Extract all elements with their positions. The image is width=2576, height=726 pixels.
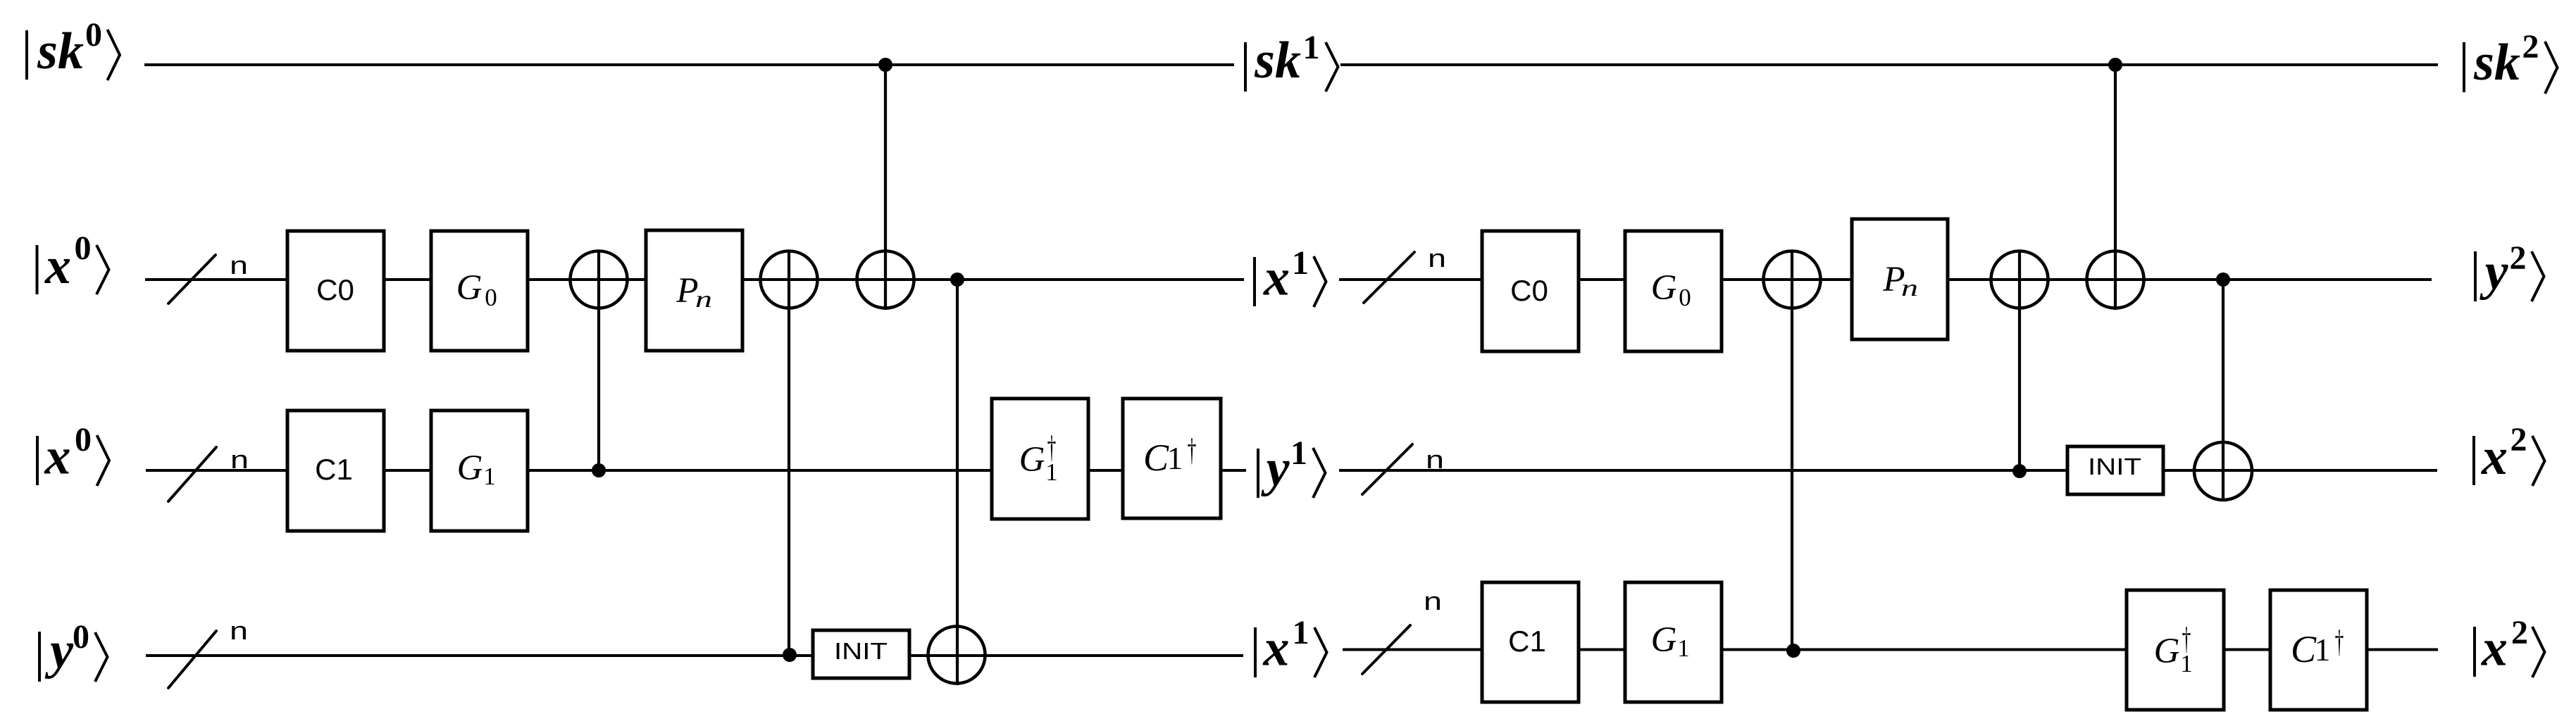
node |y2> output q1 [2474, 239, 2544, 301]
svg-text:n: n [1428, 244, 1446, 273]
node |x1> q1 [1253, 244, 1326, 307]
CNOT-8 target oplus on q2 [2194, 442, 2252, 500]
CNOT-7 control dot on q0 [2108, 58, 2122, 72]
gate G0 (round 1) on q1 [431, 231, 528, 351]
wire q2 (x mid) segment B [1339, 469, 2437, 472]
CNOT-4 control dot on q1 [950, 273, 964, 287]
CNOT-5 control dot on q3 [1786, 644, 1800, 658]
svg-text:0: 0 [75, 230, 92, 267]
svg-text:0: 0 [75, 421, 92, 458]
node |y0> input q3 [38, 618, 108, 682]
svg-text:x: x [44, 237, 71, 295]
svg-text:†: † [2335, 624, 2344, 660]
node |sk2> output q0 [2463, 28, 2558, 94]
svg-text:sk: sk [2473, 34, 2520, 92]
svg-text:G: G [1651, 620, 1677, 660]
svg-text:0: 0 [73, 618, 89, 656]
gate G0 (round 2) on q1 [1625, 231, 1722, 351]
svg-text:G: G [2154, 632, 2180, 671]
gate C1-dagger (round 2) on q3 [2270, 590, 2367, 710]
svg-text:1: 1 [1303, 29, 1320, 66]
gate G1-dagger (round 1) on q2 [992, 399, 1088, 519]
svg-text:C0: C0 [316, 273, 354, 306]
svg-text:1: 1 [1290, 434, 1307, 472]
CNOT-5 target oplus on q1 [1764, 251, 1821, 308]
wire CNOT-3 vertical (q0 ctrl to q1 target) x=1257 [884, 65, 887, 310]
svg-text:x: x [1263, 620, 1290, 677]
svg-text:y: y [1261, 439, 1290, 497]
CNOT-3 target oplus on q1 [857, 251, 914, 308]
node |x0> input q1 [36, 230, 109, 295]
gate C1 (round 1) on q2 [287, 411, 384, 531]
CNOT-2 control dot on q3 [783, 648, 797, 662]
gate C1-dagger (round 1) on q2 [1123, 399, 1221, 518]
gate INIT (round 1) on q3 [813, 630, 909, 678]
svg-text:x: x [2481, 620, 2508, 677]
CNOT-3 control dot on q0 [878, 58, 892, 72]
svg-text:y: y [44, 622, 74, 680]
CNOT-1 target oplus on q1 [571, 251, 628, 308]
wire CNOT-7 vertical (q0 ctrl to q1 target) x=3003 [2114, 65, 2117, 310]
svg-text:2: 2 [2511, 614, 2528, 651]
node |x2> output q3 [2473, 614, 2545, 677]
svg-text:y: y [2479, 243, 2509, 301]
wire CNOT-5 vertical (q3 ctrl to q1 target) x=2544 [1791, 250, 1793, 651]
svg-text:INIT: INIT [2088, 453, 2141, 480]
CNOT-4 target oplus on q3 [928, 627, 985, 684]
svg-text:1: 1 [1167, 441, 1183, 476]
svg-text:1: 1 [2180, 650, 2193, 677]
wire q2 (x mid) segment A [146, 469, 1246, 472]
wire CNOT-1 vertical (q2 ctrl to q1 target) x=850 [597, 250, 600, 470]
node |y1> q2 [1257, 434, 1326, 498]
svg-text:G: G [1651, 268, 1677, 308]
bundle slash q2 round2 [1362, 444, 1412, 494]
CNOT-2 target oplus on q1 [761, 251, 818, 308]
wire q0 (sk) segment A [144, 63, 1234, 66]
svg-text:n: n [1901, 275, 1918, 301]
svg-text:1: 1 [2315, 632, 2331, 668]
svg-text:1: 1 [483, 463, 496, 490]
gate G1 (round 1) on q2 [431, 411, 528, 531]
svg-text:n: n [230, 251, 248, 280]
svg-text:G: G [456, 268, 483, 308]
svg-text:1: 1 [1293, 614, 1309, 651]
CNOT-7 target oplus on q1 [2087, 251, 2144, 308]
node |x1> q3 [1254, 614, 1327, 677]
svg-text:C1: C1 [1508, 625, 1546, 658]
svg-text:C1: C1 [315, 453, 353, 486]
node |x2> output q2 [2472, 421, 2545, 486]
node |sk0> input q0 [25, 16, 120, 80]
svg-text:C: C [1143, 437, 1169, 479]
svg-text:G: G [457, 449, 483, 488]
svg-text:2: 2 [2510, 421, 2527, 458]
CNOT-6 target oplus on q1 [1991, 251, 2048, 308]
wire q3 (y bottom) segment A [146, 654, 1243, 657]
node |sk1> q0 [1244, 29, 1338, 92]
gate C0 (round 1) on q1 [287, 231, 384, 351]
gate INIT (round 2) on q2 [2067, 446, 2163, 494]
svg-text:n: n [1424, 587, 1442, 615]
svg-text:C0: C0 [1510, 274, 1548, 307]
svg-text:G: G [1019, 440, 1045, 480]
node |x0> input q2 [36, 421, 109, 486]
wire q3 (y bottom) segment B [1343, 649, 2438, 651]
svg-text:x: x [44, 428, 71, 486]
svg-text:0: 0 [1679, 284, 1691, 311]
gate Pn (round 1) on q1 [646, 230, 742, 351]
gate C1 (round 2) on q3 [1482, 582, 1579, 702]
svg-text:x: x [1263, 249, 1290, 307]
gate G1 (round 2) on q3 [1625, 582, 1722, 702]
svg-text:n: n [1426, 445, 1444, 474]
svg-text:1: 1 [1045, 458, 1058, 486]
svg-text:2: 2 [2522, 28, 2539, 65]
wire q1 (x top) segment A [145, 278, 1244, 281]
svg-text:0: 0 [485, 284, 497, 311]
svg-text:C: C [2291, 628, 2317, 670]
svg-text:0: 0 [85, 16, 102, 54]
CNOT-1 control dot on q2 [592, 463, 606, 477]
wire CNOT-8 vertical (q1 ctrl to q2 target) x=3156 [2222, 280, 2225, 501]
svg-text:n: n [695, 287, 712, 313]
svg-text:2: 2 [2510, 239, 2527, 277]
bundle slash q1 round2 [1364, 252, 1414, 303]
svg-text:1: 1 [1677, 634, 1690, 662]
svg-text:n: n [230, 616, 248, 645]
svg-text:x: x [2481, 428, 2508, 486]
wire CNOT-6 vertical (q2 ctrl to q1 target) x=2867 [2018, 250, 2021, 471]
bundle slash q2 round1 [168, 447, 216, 501]
CNOT-6 control dot on q2 [2012, 464, 2027, 478]
wire CNOT-2 vertical (q3 ctrl to q1 target) x=1120 [788, 250, 790, 656]
svg-text:1: 1 [1292, 244, 1309, 282]
CNOT-8 control dot on q1 [2216, 273, 2230, 287]
gate C0 (round 2) on q1 [1482, 231, 1579, 351]
svg-text:INIT: INIT [834, 638, 888, 664]
svg-text:sk: sk [1254, 32, 1301, 89]
bundle slash q3 round2 [1362, 625, 1410, 674]
bundle slash q3 round1 [168, 631, 216, 688]
wire q0 (sk) segment B [1340, 63, 2438, 66]
svg-text:sk: sk [37, 23, 84, 80]
gate G1-dagger (round 2) on q3 [2127, 590, 2224, 710]
bundle slash q1 round1 [168, 255, 216, 303]
wire CNOT-4 vertical (q1 ctrl to q3 target) x=1359 [956, 280, 959, 685]
gate Pn (round 2) on q1 [1852, 219, 1948, 339]
svg-text:n: n [230, 445, 249, 474]
svg-text:†: † [1188, 432, 1197, 468]
wire q1 (x top) segment B [1339, 278, 2432, 281]
